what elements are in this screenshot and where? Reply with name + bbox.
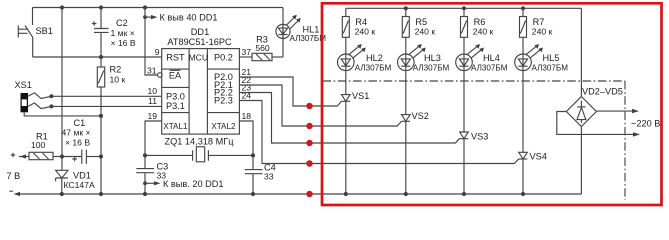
node junction rail-C2: [99, 5, 103, 9]
wire P2.1 pin22 to VS2 gate: [239, 85, 401, 126]
LED HL4: [456, 44, 508, 72]
minus arrow at rail left: [14, 192, 21, 196]
wire XTAL1 pin 19: [145, 121, 162, 155]
svg-text:АЛ307БМ: АЛ307БМ: [532, 63, 569, 72]
svg-text:VS1: VS1: [352, 91, 369, 101]
svg-text:VD1: VD1: [73, 170, 91, 180]
svg-text:10: 10: [147, 86, 157, 96]
svg-text:560: 560: [255, 43, 270, 53]
wire P2.3 pin24 to VS4 gate: [239, 101, 518, 164]
svg-text:47 мк ×: 47 мк ×: [62, 128, 91, 138]
node junction rail-R5: [404, 6, 408, 10]
wire P2.2 pin23 to VS3 gate: [239, 93, 459, 144]
svg-text:MCU: MCU: [189, 52, 209, 62]
svg-text:EA: EA: [169, 70, 182, 80]
wire bridge AC right to ~220: [596, 110, 633, 112]
svg-text:AT89C51-16PC: AT89C51-16PC: [167, 37, 232, 47]
resistor R2: [97, 57, 125, 194]
wire bridge AC left loop to ~220: [557, 112, 634, 135]
svg-text:9: 9: [155, 47, 160, 57]
node junction rail-pin40 branch: [143, 5, 147, 9]
wire R4-HL2-VS1 branch: [345, 37, 347, 94]
isolation chain line horizontal: [323, 80, 626, 82]
svg-text:XS1: XS1: [15, 80, 32, 90]
LED HL5: [515, 44, 569, 72]
wire R7-HL5-VS4 branch: [522, 37, 524, 152]
red junction dot GND: [306, 191, 312, 197]
svg-text:R6: R6: [474, 17, 486, 27]
red junction dot P2.3: [306, 160, 312, 166]
svg-text:К выв. 20 DD1: К выв. 20 DD1: [163, 179, 224, 189]
svg-text:XTAL1: XTAL1: [163, 122, 188, 131]
capacitor C2: [92, 8, 136, 58]
svg-text:1 мк ×: 1 мк ×: [111, 28, 135, 38]
svg-text:7 В: 7 В: [7, 171, 21, 181]
node junction rail-R7: [521, 6, 525, 10]
svg-text:~220 В: ~220 В: [631, 118, 660, 128]
svg-text:P3.0: P3.0: [166, 91, 185, 101]
wire XTAL2 pin 18: [239, 121, 253, 155]
svg-text:240 к: 240 к: [415, 27, 436, 37]
red junction dot P2.1: [306, 123, 312, 129]
resistor R6: [461, 8, 494, 37]
pushbutton SB1: [18, 8, 53, 58]
red junction dot P2.0: [306, 103, 312, 109]
node junction GND-VD1: [60, 192, 64, 196]
svg-text:P2.3: P2.3: [214, 96, 233, 106]
svg-text:31: 31: [147, 65, 157, 75]
svg-text:HL4: HL4: [483, 53, 500, 63]
svg-text:100: 100: [31, 140, 46, 150]
node junction rail-R6: [462, 6, 466, 10]
resistor R3: [239, 35, 283, 61]
LED HL3: [398, 44, 450, 72]
red junction dot P2.2: [306, 140, 312, 146]
svg-text:18: 18: [242, 111, 252, 121]
svg-text:АЛ307БМ: АЛ307БМ: [413, 63, 450, 72]
svg-text:HL1: HL1: [303, 24, 320, 34]
svg-text:R4: R4: [355, 17, 367, 27]
svg-text:37: 37: [242, 47, 252, 57]
capacitor C4: [245, 155, 276, 196]
svg-text:HL2: HL2: [366, 53, 383, 63]
node junction rail-SB1 branch: [60, 5, 64, 9]
isolation chain line vertical: [624, 81, 626, 200]
svg-text:VD2–VD5: VD2–VD5: [582, 87, 623, 97]
wire top VCC rail: [33, 7, 284, 9]
svg-text:ZQ1 14,318 МГц: ZQ1 14,318 МГц: [165, 136, 235, 146]
svg-text:АЛ307БМ: АЛ307БМ: [355, 63, 392, 72]
svg-text:240 к: 240 к: [355, 27, 376, 37]
wire P3.1 net: [51, 105, 161, 107]
svg-text:КС147А: КС147А: [64, 180, 95, 190]
svg-text:R2: R2: [110, 65, 122, 75]
crystal ZQ1: [143, 136, 255, 162]
diode bridge VD2-VD5: [566, 8, 622, 194]
node junction C2/R2/RST: [99, 55, 103, 59]
svg-text:11: 11: [148, 96, 157, 106]
svg-text:XTAL2: XTAL2: [211, 122, 236, 131]
svg-text:HL5: HL5: [543, 53, 560, 63]
wire pin40 VCC branch with arrow: [143, 8, 217, 78]
svg-text:× 16 В: × 16 В: [65, 138, 90, 148]
svg-text:10 к: 10 к: [110, 75, 126, 85]
capacitor C1: [62, 118, 104, 164]
wire VCC vertical branch x62: [61, 8, 63, 157]
svg-text:P0.2: P0.2: [214, 52, 233, 62]
svg-text:HL3: HL3: [424, 53, 441, 63]
svg-text:C2: C2: [116, 18, 128, 28]
svg-text:VS4: VS4: [530, 151, 547, 161]
wire P3.0 net: [51, 95, 161, 97]
svg-text:× 16 В: × 16 В: [111, 38, 136, 48]
svg-text:SB1: SB1: [36, 26, 53, 36]
resistor R4: [342, 8, 375, 37]
wire bottom GND rail: [19, 193, 581, 195]
resistor R7: [520, 8, 553, 37]
svg-text:R5: R5: [415, 17, 427, 27]
resistor R1: [11, 132, 62, 160]
wire R5-HL3-VS2 branch: [405, 37, 407, 114]
connector XS1: [15, 80, 104, 118]
node junction GND-R2: [99, 192, 103, 196]
LED HL1: [276, 8, 326, 58]
zener diode VD1: [56, 157, 95, 195]
svg-text:240 к: 240 к: [532, 27, 553, 37]
svg-text:R7: R7: [533, 17, 545, 27]
svg-text:К выв 40 DD1: К выв 40 DD1: [160, 13, 218, 23]
svg-text:RST: RST: [166, 52, 185, 62]
svg-text:P3.1: P3.1: [166, 101, 185, 111]
thyristor VS2: [402, 111, 429, 196]
wire RST net (SB1 to pin 9): [33, 56, 162, 58]
thyristor VS1: [342, 91, 370, 196]
svg-text:C1: C1: [74, 118, 86, 128]
wire R6-HL4-VS3 branch: [463, 37, 465, 132]
wire pin20 GND arrow: [143, 179, 223, 189]
svg-text:VS3: VS3: [471, 132, 488, 142]
svg-text:VS2: VS2: [412, 111, 429, 121]
MCU DD1 box: [162, 27, 240, 134]
svg-text:33: 33: [264, 172, 274, 182]
thyristor VS4: [519, 151, 547, 196]
svg-text:19: 19: [147, 111, 157, 121]
svg-text:240 к: 240 к: [473, 27, 494, 37]
wire P2.0 pin21 to VS1 gate: [239, 77, 341, 106]
svg-text:АЛ307БМ: АЛ307БМ: [471, 63, 508, 72]
wire top rail red section: [346, 7, 582, 9]
capacitor C3: [136, 155, 168, 196]
svg-text:DD1: DD1: [191, 27, 209, 37]
node junction VCC/VD1/C1: [60, 154, 64, 158]
red highlight box: [322, 3, 662, 205]
LED HL2: [338, 44, 392, 72]
thyristor VS3: [460, 132, 489, 196]
resistor R5: [402, 8, 435, 37]
